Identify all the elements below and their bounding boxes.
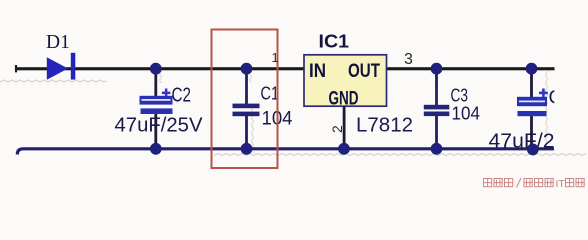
wire end tick left [15, 65, 17, 72]
capacitor C4 [517, 89, 548, 117]
watermark 头条号/国龙会IT技术 [484, 178, 585, 188]
wavy artifact under top wire [0, 80, 106, 82]
op-amp regulator IC1 box [304, 55, 387, 106]
wire top horizontal [16, 67, 555, 70]
wire C4 vertical [530, 69, 533, 99]
wire C1 vertical [245, 69, 248, 105]
svg-text:C1: C1 [261, 83, 280, 104]
svg-text:L7812: L7812 [356, 114, 413, 137]
wavy vertical artifacts [160, 71, 548, 153]
wire GND pin 2 vertical [343, 106, 346, 148]
node junction dots bottom [150, 143, 539, 155]
svg-text:IN: IN [309, 61, 326, 82]
wire bottom horizontal [17, 149, 554, 155]
svg-text:47uF/25V: 47uF/25V [115, 114, 203, 137]
svg-text:D1: D1 [46, 32, 70, 53]
node junction dots top [150, 63, 537, 75]
capacitor C3 [424, 105, 450, 116]
svg-text:3: 3 [404, 51, 413, 68]
wavy artifact under bottom wire [214, 154, 586, 156]
diode D1 [47, 53, 76, 80]
svg-text:IT: IT [556, 178, 566, 190]
capacitor C1 [233, 104, 260, 117]
svg-text:OUT: OUT [348, 61, 380, 82]
red highlight box [212, 30, 278, 169]
wire C3 vertical [435, 69, 438, 106]
svg-text:2: 2 [329, 125, 345, 133]
svg-text:IC1: IC1 [319, 32, 350, 52]
wire C2 vertical [154, 69, 157, 97]
svg-text:104: 104 [452, 103, 481, 124]
svg-text:1: 1 [272, 50, 279, 65]
svg-text:C2: C2 [172, 85, 192, 107]
capacitor C2 [140, 89, 173, 115]
